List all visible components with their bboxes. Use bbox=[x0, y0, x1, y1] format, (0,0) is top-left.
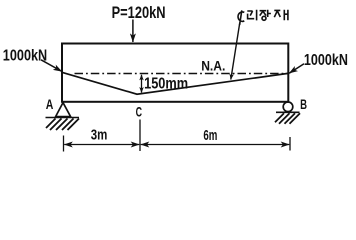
leader arrow from label to tendon bbox=[231, 23, 240, 80]
svg-text:150mm: 150mm bbox=[144, 76, 188, 93]
svg-text:B: B bbox=[300, 97, 307, 112]
svg-text:P=120kN: P=120kN bbox=[112, 3, 166, 22]
150mm eccentricity dimension line bbox=[141, 75, 143, 93]
neutral axis dash-dot line bbox=[75, 73, 289, 75]
support B ground line bbox=[276, 111, 300, 113]
svg-text:1000kN: 1000kN bbox=[3, 47, 47, 64]
svg-text:C: C bbox=[136, 105, 143, 120]
beam outline bbox=[62, 44, 288, 102]
svg-text:3m: 3m bbox=[91, 127, 108, 144]
extension tick at A bbox=[63, 136, 65, 152]
extension tick at B bbox=[289, 137, 291, 151]
svg-text:N.A.: N.A. bbox=[201, 59, 225, 74]
support B roller circle bbox=[283, 102, 293, 112]
right prestress force arrow 1000kN bbox=[289, 64, 304, 73]
support A ground line bbox=[46, 117, 80, 119]
korean label tendon (긴장재) drawn as strokes bbox=[247, 10, 288, 21]
tendon profile bbox=[63, 73, 288, 95]
support B hatching bbox=[275, 113, 300, 124]
svg-text:A: A bbox=[46, 97, 54, 112]
dimension line 3m segment bbox=[64, 144, 139, 146]
support A pin triangle bbox=[56, 103, 71, 117]
left prestress force arrow 1000kN bbox=[41, 60, 62, 72]
load arrow P bbox=[132, 20, 134, 43]
extension line at C bbox=[139, 120, 141, 152]
dimension line 6m segment bbox=[141, 144, 290, 146]
support A hatching bbox=[46, 119, 79, 131]
svg-text:6m: 6m bbox=[203, 127, 217, 144]
centerline symbol of tendon label bbox=[238, 10, 244, 25]
svg-text:1000kN: 1000kN bbox=[304, 52, 348, 69]
